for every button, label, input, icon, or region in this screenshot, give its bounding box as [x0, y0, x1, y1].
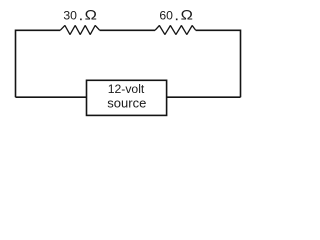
wire: bottom-right segment: [167, 96, 241, 98]
svg-text:Ω: Ω: [85, 7, 97, 23]
svg-text:60: 60: [159, 9, 173, 23]
wire: top-right segment + right vertical: [196, 30, 241, 97]
svg-text:source: source: [107, 96, 146, 111]
svg-text:30: 30: [63, 9, 77, 23]
resistor R1 (30 ohm) zigzag: [60, 25, 99, 34]
svg-text:Ω: Ω: [181, 7, 193, 23]
wire: left vertical + top-left segment: [16, 30, 61, 97]
svg-text:12-volt: 12-volt: [108, 82, 145, 96]
resistor R2 (60 ohm) zigzag: [155, 26, 196, 35]
wire: bottom-left segment: [16, 96, 87, 98]
wire: top middle segment between R1 and R2: [100, 29, 155, 31]
battery box: 12-volt source: [87, 80, 167, 115]
